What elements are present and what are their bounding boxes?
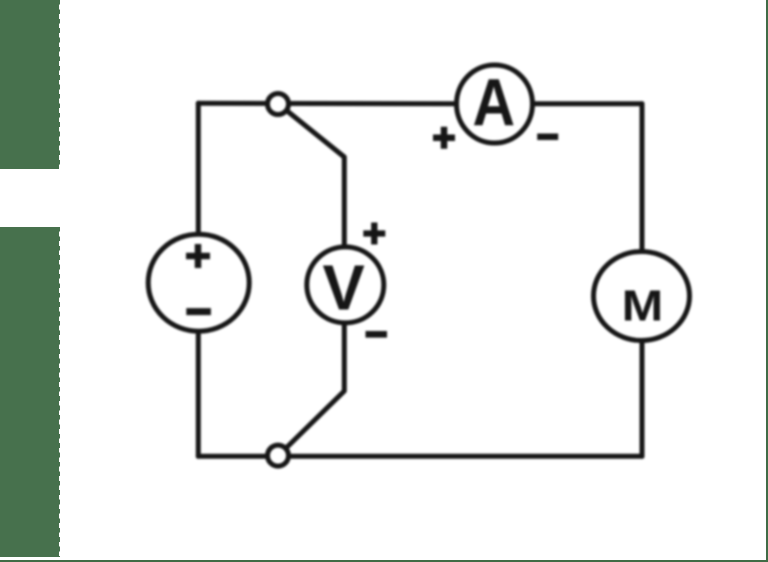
green sidebar bottom segment	[0, 227, 59, 557]
motor M circle	[594, 252, 690, 341]
ammeter minus sign	[537, 133, 558, 140]
battery plus sign	[186, 244, 210, 268]
svg-text:V: V	[322, 252, 365, 323]
wire: top horizontal right (ammeter to top-right corner)	[535, 101, 643, 106]
wire: voltmeter branch top (diagonal + vertical from top node to V)	[281, 106, 344, 245]
wire: right vertical top (corner to motor)	[640, 104, 645, 251]
wire: voltmeter branch bottom (vertical + diagonal from V to bottom node)	[281, 325, 344, 453]
voltmeter minus sign	[366, 331, 388, 338]
battery minus sign	[186, 308, 211, 315]
wire: left vertical bottom (corner up to battery bottom)	[196, 334, 201, 456]
voltmeter plus sign	[363, 223, 385, 245]
dashed right edge of sidebar top segment	[59, 0, 61, 169]
wire: right vertical bottom (motor to bottom-right corner)	[640, 342, 645, 456]
wire: bottom horizontal (right corner to left corner)	[198, 454, 642, 459]
battery / voltage source circle	[148, 234, 249, 331]
svg-text:A: A	[473, 66, 516, 140]
dashed right edge of sidebar bottom segment	[59, 227, 61, 557]
voltmeter V circle	[307, 247, 384, 323]
green sidebar top segment	[0, 0, 59, 169]
svg-text:M: M	[622, 282, 664, 330]
wire: top horizontal left (corner to ammeter)	[198, 101, 454, 107]
ammeter plus sign	[433, 127, 455, 149]
green line right edge	[766, 0, 768, 562]
wire: top-left vertical (battery top to top wire)	[196, 103, 201, 232]
node: top junction	[268, 94, 289, 115]
ammeter A circle	[457, 65, 533, 143]
node: bottom junction	[268, 445, 289, 466]
green line bottom edge	[0, 560, 768, 562]
